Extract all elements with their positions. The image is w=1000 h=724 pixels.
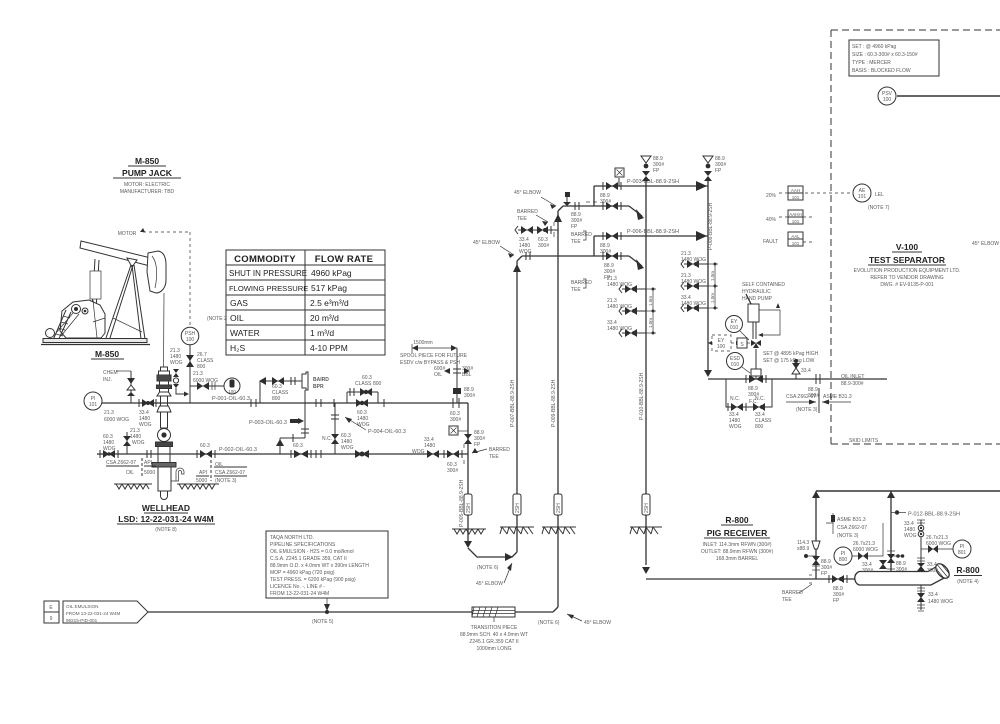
svg-text:(NOTE 3): (NOTE 3) [215,478,237,484]
svg-text:N.C.: N.C. [730,396,740,402]
PSH stem valve + TW [170,345,240,403]
svg-text:FP: FP [821,571,828,577]
svg-text:2SH: 2SH [515,503,521,513]
svg-text:P-008-BBL-88.9-2SH: P-008-BBL-88.9-2SH [708,202,714,250]
ASME/CSA break note at receiver [826,513,867,539]
svg-text:P-003-BBL-88.9-2SH: P-003-BBL-88.9-2SH [627,179,679,185]
motor signal line (dashed) [118,228,190,326]
X spec box [449,426,458,435]
svg-text:ESDV c/w BYPASS & PSH: ESDV c/w BYPASS & PSH [400,360,460,366]
vent P-008 top relief x=708 [703,156,726,181]
3-way hydraulic valve [751,322,761,375]
svg-text:20%: 20% [766,193,777,199]
riser to P-003 at x=594 [593,186,595,206]
svg-text:MOP = 4960 kPag (720 psig): MOP = 4960 kPag (720 psig) [270,570,335,576]
svg-text:AAHH: AAHH [789,212,802,217]
valves on L2 [103,450,109,458]
beam pivot [127,258,137,267]
svg-text:WOG: WOG [729,424,742,430]
svg-text:SET @ 175 kPag LOW: SET @ 175 kPag LOW [763,358,815,364]
P-002 end run into leg [421,453,468,455]
svg-text:100: 100 [883,97,892,103]
svg-text:P-001-OIL-60.3: P-001-OIL-60.3 [212,396,250,402]
spool piece dimension 1500mm [400,340,468,366]
svg-text:BARRED: BARRED [782,590,803,596]
commodity / flow-rate table [226,250,385,355]
svg-text:M-850: M-850 [135,156,159,166]
svg-text:6000 WOG: 6000 WOG [193,378,218,384]
svg-text:40%: 40% [766,217,777,223]
Z connector to L2 (P-003-OIL-60.3) [301,428,309,430]
riser P-008 x=708 [704,181,714,377]
svg-text:4960 kPag: 4960 kPag [311,268,352,278]
svg-text:TRANSITION PIECE: TRANSITION PIECE [471,625,518,631]
svg-text:1 m³/d: 1 m³/d [310,328,334,338]
wellhead tree graphic [152,367,184,500]
svg-text:AAH: AAH [791,188,800,193]
svg-text:R-800: R-800 [725,515,748,525]
svg-text:(NOTE 4): (NOTE 4) [957,579,979,585]
check valve on inlet [792,359,811,379]
self contained hydraulic hand pump [742,282,785,339]
svg-text:WOG: WOG [412,449,425,455]
svg-text:2SH: 2SH [556,503,562,513]
svg-text:21.3: 21.3 [193,371,203,377]
instrument PI-101 [84,392,129,423]
solenoid S box [737,338,750,348]
svg-text:45° ELBOW: 45° ELBOW [514,190,541,196]
ladder [53,310,66,340]
svg-text:INLET: 114.3mm RFWN (300#): INLET: 114.3mm RFWN (300#) [702,542,771,548]
svg-text:800: 800 [373,381,382,387]
horse head [147,251,166,293]
svg-text:Z245.1 GR.359 CAT II: Z245.1 GR.359 CAT II [469,639,518,645]
svg-text:6000 WOG: 6000 WOG [853,547,878,553]
svg-text:TEE: TEE [489,454,499,460]
svg-text:1480 WOG: 1480 WOG [681,279,706,285]
crank sheaves [72,305,81,314]
svg-text:FROM 13-22-031-24 W4M: FROM 13-22-031-24 W4M [270,591,329,597]
alarm boxes AAH / AAHH / AAL [763,186,815,246]
svg-text:1480 WOG: 1480 WOG [681,257,706,263]
svg-text:BAIRD: BAIRD [313,377,329,383]
svg-text:P-002-OIL-60.3: P-002-OIL-60.3 [219,447,257,453]
separator inlet line [708,374,887,387]
svg-text:WOG: WOG [103,446,116,452]
jurisdiction break labels at wellhead [106,458,247,484]
svg-text:60.3: 60.3 [200,443,210,449]
flowline L2 P-002-OIL-60.3 [97,428,421,458]
svg-text:OIL: OIL [126,470,134,476]
flange pair at skid edge [808,374,820,399]
svg-text:100: 100 [228,389,236,394]
svg-text:API: API [144,460,152,466]
svg-text:EVOLUTION PRODUCTION EQUIPMENT: EVOLUTION PRODUCTION EQUIPMENT LTD. [854,268,961,274]
svg-text:BPR: BPR [313,384,324,390]
instrument ESD-010 [727,353,751,374]
riser to header x=816 [797,491,832,579]
svg-text:BARRED: BARRED [489,447,510,453]
svg-text:800: 800 [272,396,281,402]
P-012 line label [891,510,960,517]
svg-text:99215-PID-001: 99215-PID-001 [66,618,98,623]
svg-text:PUMP JACK: PUMP JACK [122,168,173,178]
barrel drain valves [917,585,953,611]
svg-text:FP: FP [715,168,722,174]
header L2t y=206 [563,192,644,245]
svg-text:LEL: LEL [875,192,884,198]
svg-text:API: API [199,470,207,476]
svg-text:800: 800 [839,557,848,563]
svg-text:OIL: OIL [230,313,244,323]
svg-text:REFER TO VENDOR DRAWING: REFER TO VENDOR DRAWING [870,275,943,281]
svg-text:CSA Z662-07: CSA Z662-07 [837,525,867,531]
svg-text:WOG: WOG [341,445,354,451]
riser x=891 barrel to header [887,491,907,573]
svg-text:45° ELBOW: 45° ELBOW [972,241,999,247]
svg-text:DWG. # EV-9135-P-001: DWG. # EV-9135-P-001 [880,282,934,288]
svg-text:SPOOL PIECE FOR FUTURE: SPOOL PIECE FOR FUTURE [400,353,468,359]
svg-text:WOG: WOG [170,360,183,366]
svg-text:168.3mm BARREL: 168.3mm BARREL [716,556,758,562]
svg-text:300#: 300# [896,567,907,573]
svg-text:300#: 300# [464,393,475,399]
X spec box above P-003 [615,168,624,186]
svg-text:800: 800 [197,364,206,370]
svg-text:TEST SEPARATOR: TEST SEPARATOR [869,255,945,265]
interlock EY-100 dashed box [708,335,740,351]
svg-text:100: 100 [186,337,195,343]
svg-text:N.C.: N.C. [322,436,332,442]
svg-text:P-009-BBL-88.9-2SH: P-009-BBL-88.9-2SH [551,379,557,427]
svg-text:WELLHEAD: WELLHEAD [142,503,190,513]
svg-text:FAULT: FAULT [763,239,778,245]
svg-text:TEST PRESS. = 6200 kPag (900 p: TEST PRESS. = 6200 kPag (900 psig) [270,577,356,583]
svg-text:010: 010 [731,362,740,368]
svg-text:BARRED: BARRED [571,280,592,286]
svg-text:9: 9 [50,616,53,622]
1.0m dims [652,289,654,311]
svg-text:P-006-BBL-88.9-2SH: P-006-BBL-88.9-2SH [627,229,679,235]
svg-text:SKID LIMITS: SKID LIMITS [849,438,879,444]
valve on pig line [828,575,830,583]
riser P-004-OIL-60.3 with N.C. valve [322,403,406,454]
svg-text:FP: FP [571,224,578,230]
off-page connector flag OIL EMULSION [63,601,148,623]
svg-text:V-100: V-100 [896,242,918,252]
instrument PSH-100 [181,316,229,345]
svg-text:101: 101 [89,402,98,408]
pig receiver barrel R-800 [855,561,982,585]
svg-text:BASIS : BLOCKED FLOW: BASIS : BLOCKED FLOW [852,68,911,74]
svg-text:MOTOR: ELECTRIC: MOTOR: ELECTRIC [124,182,170,188]
svg-text:1500mm: 1500mm [413,340,432,346]
svg-text:45° ELBOW: 45° ELBOW [476,581,503,587]
svg-text:BARRED: BARRED [571,232,592,238]
PSV data box [849,40,939,76]
base skid [43,339,147,343]
svg-text:OIL INLET: OIL INLET [841,374,864,380]
ground hatch x=517 [500,527,534,534]
label M-850 under pump jack [91,349,124,359]
valve on L1 near wellhead [139,399,156,428]
svg-text:100: 100 [717,344,726,350]
BAIRD BPR back-pressure loop [259,372,329,454]
svg-text:(NOTE 6): (NOTE 6) [538,620,560,626]
reducer [812,541,820,549]
flange ticks on L1 [250,399,252,407]
svg-text:45° ELBOW: 45° ELBOW [473,240,500,246]
svg-text:88.9-300#: 88.9-300# [841,381,864,387]
label P-003-OIL-60.3 [249,418,304,426]
svg-text:P-003-OIL-60.3: P-003-OIL-60.3 [249,420,287,426]
svg-text:H₂S: H₂S [230,343,245,353]
pig receiver inlet line [646,575,855,604]
off-page connector boxes [44,601,59,623]
header line to separator y=491 [816,491,1000,498]
svg-text:CSA Z662-07: CSA Z662-07 [786,394,816,400]
svg-text:1.0m: 1.0m [648,318,653,328]
transition piece [460,607,528,652]
svg-text:FLOWING PRESSURE: FLOWING PRESSURE [229,284,308,293]
walking beam [80,241,151,266]
skid limits dashed boundary [831,30,1000,444]
svg-text:LSD: 12-22-031-24 W4M: LSD: 12-22-031-24 W4M [118,514,213,524]
svg-text:AAL: AAL [791,234,800,239]
svg-text:SET @ 4895 kPag HIGH: SET @ 4895 kPag HIGH [763,351,819,357]
label R-800 PIG RECEIVER [701,515,774,562]
45 elbow label at top of x558 [514,190,556,209]
svg-text:TYPE : MERCER: TYPE : MERCER [852,60,891,66]
ground hatch x=558 [542,527,576,534]
label WELLHEAD LSD [117,503,215,533]
riser P-010 x=646 [639,181,650,574]
svg-text:(NOTE 8): (NOTE 8) [155,527,177,533]
pitman arms [92,259,95,310]
svg-text:300#: 300# [447,468,458,474]
svg-text:(NOTE 7): (NOTE 7) [868,205,890,211]
svg-text:(NOTE 3): (NOTE 3) [796,407,818,413]
svg-text:TEE: TEE [782,597,792,603]
header P-003-BBL-88.9-2SH y=186 [594,179,708,205]
svg-text:OIL EMULSION: OIL EMULSION [66,604,99,609]
header L4 y=256 [522,252,644,293]
svg-text:FP: FP [833,598,840,604]
set point text [763,351,819,364]
svg-text:517 kPag: 517 kPag [311,283,347,293]
instrument PI-801 [953,540,971,558]
svg-text:GAS: GAS [230,298,248,308]
svg-text:300#: 300# [450,417,461,423]
svg-text:P-010-BBL-88.9-2SH: P-010-BBL-88.9-2SH [639,372,645,420]
svg-text:WATER: WATER [230,328,260,338]
pump jack M-850 [41,241,166,368]
svg-text:PIG RECEIVER: PIG RECEIVER [707,528,767,538]
svg-text:WOG: WOG [357,422,370,428]
svg-text:801: 801 [958,550,967,556]
svg-text:4-10 PPM: 4-10 PPM [310,343,348,353]
TAQA pipeline spec box [266,531,388,611]
header P-006-BBL-88.9-2SH y=236 [594,229,708,255]
svg-text:FROM 13-22-031-24 W4M: FROM 13-22-031-24 W4M [66,611,121,616]
svg-text:R-800: R-800 [956,565,979,575]
stub valves on x=646 [607,276,656,337]
svg-text:300#: 300# [538,243,549,249]
svg-text:300#: 300# [600,249,611,255]
svg-text:MOTOR: MOTOR [118,231,137,237]
svg-text:FP: FP [653,168,660,174]
svg-text:1480: 1480 [424,443,435,449]
label M-850 PUMP JACK [113,156,181,195]
chem injection quill assembly [173,369,189,397]
casing vent spout [171,468,184,481]
vent P-010 top relief x=646 [641,156,664,181]
riser P-007 x=517 [510,256,522,552]
svg-text:2SH: 2SH [466,503,472,513]
svg-text:CSA Z662-07: CSA Z662-07 [106,460,136,466]
svg-text:20 m³/d: 20 m³/d [310,313,339,323]
svg-text:ASME B31.3: ASME B31.3 [837,517,866,523]
svg-text:TAQA NORTH LTD.: TAQA NORTH LTD. [270,535,314,541]
svg-text:1480 WOG: 1480 WOG [681,301,706,307]
belt [56,313,73,333]
svg-text:SET : @ 4960 kPag: SET : @ 4960 kPag [852,44,896,50]
svg-text:101: 101 [858,194,867,200]
svg-text:SELF CONTAINED: SELF CONTAINED [742,282,785,288]
wellhead drop leg P-005 x=468 [412,348,510,546]
gas riser x=921 with PI-801 [904,520,953,574]
svg-text:2.5 e³m³/d: 2.5 e³m³/d [310,298,349,308]
pipeline main run [148,607,558,625]
svg-text:MANUFACTURER: TBD: MANUFACTURER: TBD [120,189,175,195]
45 elbow label top left [473,240,514,258]
svg-text:1.0m: 1.0m [710,293,715,303]
note 6 + elbow labels at pipeline riser [538,614,611,626]
svg-text:33.4: 33.4 [928,592,938,598]
svg-text:(NOTE 5): (NOTE 5) [312,619,334,625]
svg-text:300#: 300# [862,568,873,574]
svg-text:88.9mm O.D. x 4.0mm WT x 390m: 88.9mm O.D. x 4.0mm WT x 390m LENGTH [270,563,369,569]
svg-text:33.4: 33.4 [801,368,811,374]
svg-text:WOG: WOG [139,422,152,428]
CSA/ASME jurisdiction break at inlet [786,388,852,413]
instrument EY-010 [726,316,750,341]
svg-text:LICENCE No. -, LINE # -: LICENCE No. -, LINE # - [270,584,325,590]
riser to P-006 at x=594 [593,236,595,256]
svg-text:ASME B31.3: ASME B31.3 [823,394,852,400]
svg-text:101: 101 [792,241,800,246]
svg-text:010: 010 [730,325,739,331]
svg-text:1.0m: 1.0m [648,296,653,306]
svg-text:COMMODITY: COMMODITY [234,254,296,265]
svg-text:(NOTE 3): (NOTE 3) [837,533,859,539]
svg-text:N.C.: N.C. [755,396,765,402]
svg-text:C.S.A. Z245.1 GRADE 359, CAT I: C.S.A. Z245.1 GRADE 359, CAT II [270,556,347,562]
stub valves on x=708 [681,251,718,312]
svg-text:45° ELBOW: 45° ELBOW [584,620,611,626]
drain branch on x558 at y=230 [515,209,558,255]
label V-100 TEST SEPARATOR [854,242,961,288]
ESD valve on inlet line [746,369,766,405]
ground hatch at wellhead [114,484,219,489]
svg-text:6000 WOG: 6000 WOG [926,541,951,547]
svg-text:CSA Z662-07: CSA Z662-07 [215,470,245,476]
svg-text:CHEM: CHEM [103,370,118,376]
svg-text:P-007-BBL-88.9-2SH: P-007-BBL-88.9-2SH [510,379,516,427]
svg-text:INJ.: INJ. [103,377,112,383]
chem injection [103,370,135,403]
svg-text:1000mm LONG: 1000mm LONG [476,646,511,652]
svg-text:PIPELINE SPECIFICATIONS: PIPELINE SPECIFICATIONS [270,542,336,548]
bypass loop with 60.3 CLASS 800 [347,375,382,428]
svg-text:SHUT IN PRESSURE: SHUT IN PRESSURE [229,269,307,278]
svg-text:BARRED: BARRED [517,209,538,215]
svg-text:300#: 300# [600,199,611,205]
svg-text:BBL: BBL [462,372,472,378]
svg-text:(NOTE 6): (NOTE 6) [477,565,499,571]
svg-text:6000 WOG: 6000 WOG [104,417,129,423]
svg-text:(NOTE 2): (NOTE 2) [207,316,229,322]
spec tag 2SH x=468 [464,494,472,515]
instrument PI-800 [834,523,887,574]
svg-text:60.3: 60.3 [293,443,303,449]
svg-text:x88.9: x88.9 [797,546,809,552]
svg-text:800: 800 [755,424,764,430]
svg-text:CLASS: CLASS [355,381,372,387]
svg-text:M-850: M-850 [95,349,119,359]
svg-text:OUTLET: 88.9mm RFWN (300#): OUTLET: 88.9mm RFWN (300#) [701,549,774,555]
svg-text:5000: 5000 [196,478,207,484]
svg-text:101: 101 [792,195,800,200]
svg-text:1480 WOG: 1480 WOG [607,304,632,310]
svg-text:1480 WOG: 1480 WOG [607,326,632,332]
samson post legs [106,265,131,338]
left small vent stack on L2 [126,432,128,454]
ground hatch x=646 [630,527,662,534]
elbow wellhead line to riser x=517 [464,541,517,587]
svg-text:HAND PUMP: HAND PUMP [742,296,773,302]
svg-text:SIZE : 60.3-300# x 60.3-150#: SIZE : 60.3-300# x 60.3-150# [852,52,918,58]
svg-text:1.0m: 1.0m [710,271,715,281]
svg-text:101: 101 [792,219,800,224]
svg-text:P-012-BBL-88.9-2SH: P-012-BBL-88.9-2SH [908,512,960,518]
relief valve PSV-100 [878,87,1000,105]
ESD leg valve [464,434,472,439]
svg-text:TEE: TEE [517,216,527,222]
motor [46,329,55,338]
riser P-009 x=558 from pipeline [551,206,563,607]
svg-text:TEE: TEE [571,239,581,245]
svg-text:88.9mm SCH. 40 x 4.0mm WT: 88.9mm SCH. 40 x 4.0mm WT [460,632,528,638]
svg-text:TEE: TEE [571,287,581,293]
main flowline L1 P-001-OIL-60.3 [102,396,461,423]
svg-text:21.3: 21.3 [104,410,114,416]
svg-text:WOG: WOG [519,249,532,255]
polished rod [163,293,166,368]
svg-text:FP: FP [474,442,481,448]
svg-text:WOG: WOG [904,533,917,539]
svg-text:P-004-OIL-60.3: P-004-OIL-60.3 [368,429,406,435]
svg-text:5000: 5000 [144,470,155,476]
svg-text:1480 WOG: 1480 WOG [928,599,953,605]
gearbox housing [60,300,105,338]
svg-text:OIL EMULSION - H2S = 0.0 mol/k: OIL EMULSION - H2S = 0.0 mol/kmol [270,549,354,555]
svg-text:300#: 300# [927,568,938,574]
analyzer AE-101 LEL [805,184,890,211]
svg-text:OIL: OIL [434,372,442,378]
ESDV bypass loop below [726,379,772,430]
svg-text:WOG: WOG [132,440,145,446]
